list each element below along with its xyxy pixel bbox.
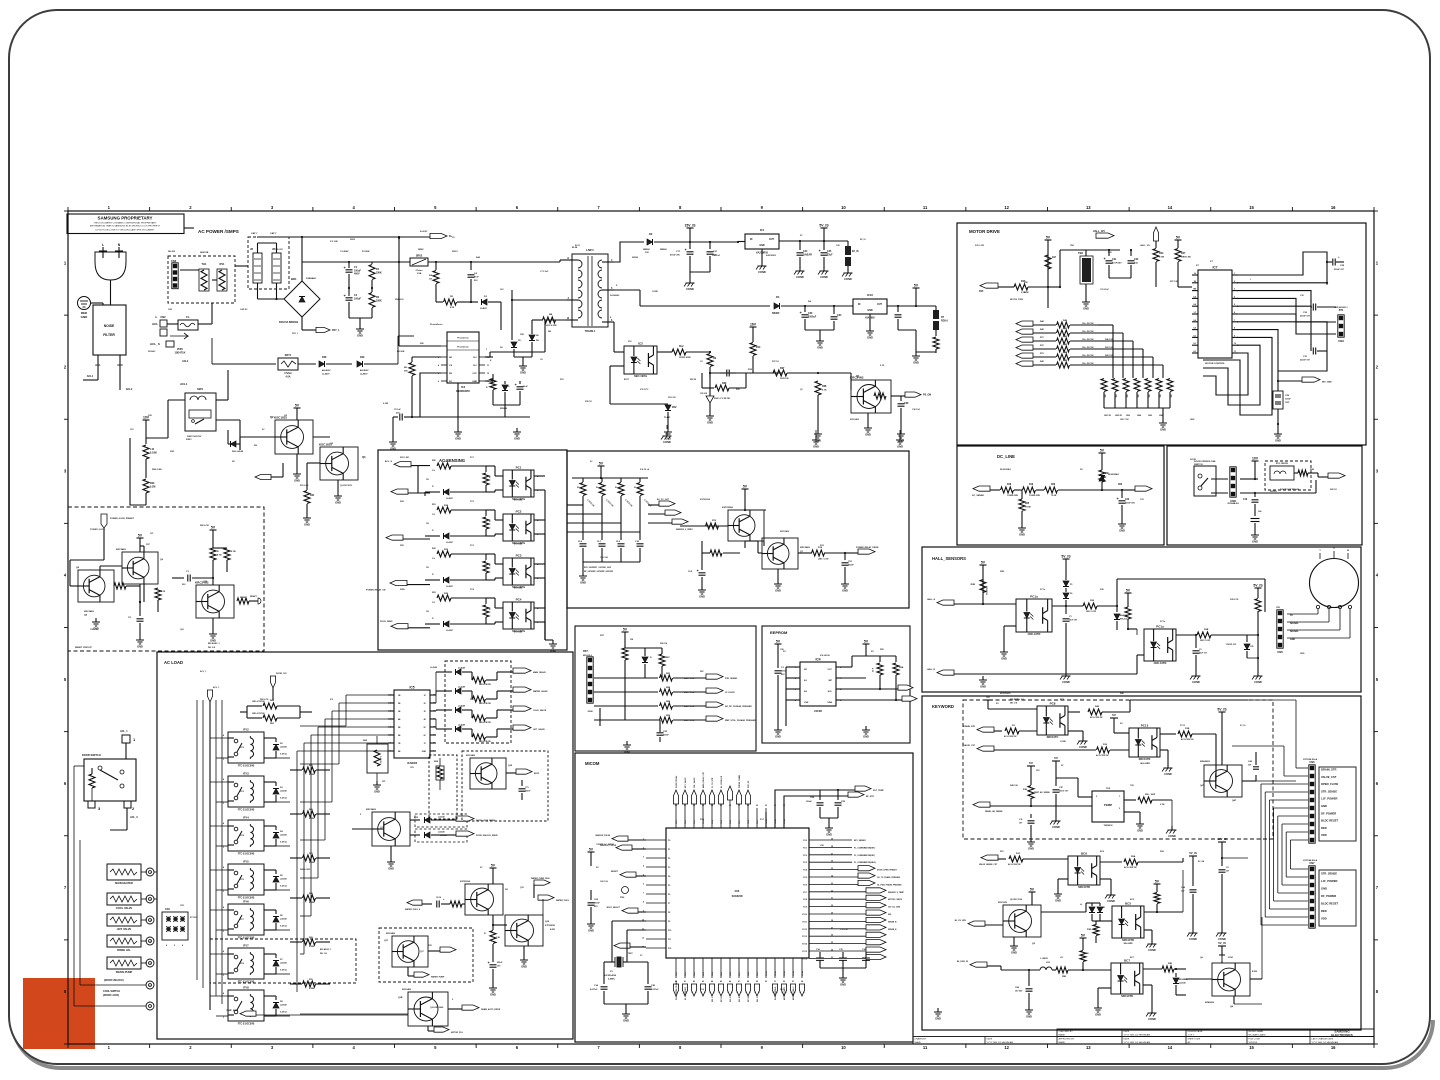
flag DC_OUT bbox=[1122, 489, 1135, 491]
svg-text:GND: GND bbox=[980, 685, 986, 689]
svg-text:10: 10 bbox=[841, 205, 846, 210]
resistor R72 bbox=[485, 554, 487, 560]
svg-text:P3.1: P3.1 bbox=[685, 972, 687, 976]
svg-text:GND: GND bbox=[357, 334, 363, 338]
svg-text:P9: P9 bbox=[668, 921, 670, 923]
svg-text:ACL_3: ACL_3 bbox=[130, 816, 138, 819]
flag MOT_IN5 bbox=[1016, 353, 1033, 358]
svg-text:TEMP_AD_SENSE: TEMP_AD_SENSE bbox=[1034, 791, 1050, 794]
5V_IS net bbox=[1218, 945, 1226, 947]
CN6 top feeds bbox=[1296, 767, 1308, 769]
cap C43 bbox=[1055, 772, 1057, 786]
MCU right pins bbox=[802, 839, 833, 961]
TEMP block TH5 bbox=[1092, 791, 1124, 822]
svg-text:1: 1 bbox=[390, 695, 391, 697]
svg-text:PRESS_COMM: PRESS_COMM bbox=[739, 775, 741, 788]
opto PC8 bbox=[1037, 706, 1068, 735]
svg-text:P2.10: P2.10 bbox=[802, 914, 807, 916]
svg-text:COND: COND bbox=[1168, 834, 1176, 838]
svg-text:SB560: SB560 bbox=[632, 257, 639, 259]
svg-text:HOT_VALVE: HOT_VALVE bbox=[533, 728, 545, 731]
EEPROM section box bbox=[762, 626, 910, 743]
dashed diode row 0 bbox=[415, 814, 467, 827]
svg-text:P3.2: P3.2 bbox=[694, 972, 696, 976]
svg-text:220uF 10T: 220uF 10T bbox=[1300, 359, 1311, 361]
svg-text:R32 1K: R32 1K bbox=[585, 401, 592, 403]
resistor R37 bbox=[746, 372, 770, 374]
svg-text:RY4: RY4 bbox=[243, 816, 249, 820]
inductor L10 bbox=[145, 438, 147, 444]
cap C24 bbox=[799, 241, 801, 250]
5V net bbox=[588, 851, 595, 853]
resistor R18 bbox=[1001, 487, 1014, 493]
svg-text:C5A: C5A bbox=[1015, 986, 1020, 989]
svg-text:C7 2.2nF: C7 2.2nF bbox=[540, 271, 549, 273]
svg-text:DE: 1 B: DE: 1 B bbox=[208, 647, 216, 649]
resistor R6 bbox=[412, 356, 441, 358]
svg-text:15: 15 bbox=[1249, 205, 1254, 210]
svg-text:DC_LINE: DC_LINE bbox=[997, 454, 1015, 459]
svg-text:SRC10TR: SRC10TR bbox=[1121, 994, 1133, 998]
zener D12 bbox=[1175, 969, 1177, 976]
flag POWER_RELAY_ON bbox=[390, 580, 407, 585]
load RINSE VAL bbox=[107, 935, 141, 947]
5V net bbox=[1175, 239, 1182, 241]
wire IC7 pin4 bbox=[1237, 298, 1336, 322]
svg-text:15V_IS: 15V_IS bbox=[1217, 837, 1226, 841]
svg-text:GND: GND bbox=[388, 867, 394, 871]
svg-text:IC4 24C08: IC4 24C08 bbox=[820, 654, 830, 657]
svg-text:GND: GND bbox=[1095, 1013, 1101, 1017]
cap C62 bbox=[627, 961, 648, 963]
svg-text:P0.4: P0.4 bbox=[711, 820, 714, 824]
svg-text:ACL_S: ACL_S bbox=[150, 342, 160, 346]
relay RY3 bbox=[228, 776, 264, 807]
flag AC_ZC_OUT bbox=[648, 504, 659, 506]
svg-text:GND: GND bbox=[472, 381, 477, 383]
cap C50 bbox=[701, 563, 703, 570]
svg-text:LED 4.7K/1W: LED 4.7K/1W bbox=[479, 702, 491, 705]
svg-text:BF_STR: BF_STR bbox=[866, 796, 874, 798]
svg-text:50: 50 bbox=[765, 981, 767, 983]
svg-text:SEL B: SEL B bbox=[739, 996, 741, 1002]
motor M1 bbox=[1310, 559, 1359, 608]
svg-text:TB2: TB2 bbox=[1078, 251, 1083, 255]
svg-text:BIO ASSY: 1: BIO ASSY: 1 bbox=[320, 948, 331, 951]
flag FRY_1 bbox=[302, 329, 316, 331]
5V net bbox=[294, 407, 301, 409]
svg-text:DOOR_UNLOCK_DRIVE: DOOR_UNLOCK_DRIVE bbox=[476, 835, 498, 837]
svg-text:0.47mA: 0.47mA bbox=[280, 1010, 287, 1013]
svg-text:R27: R27 bbox=[1181, 252, 1186, 255]
svg-text:5V: 5V bbox=[981, 561, 986, 565]
svg-text:PinsinDesin: PinsinDesin bbox=[457, 347, 469, 349]
svg-text:GND: GND bbox=[623, 1019, 629, 1023]
svg-text:MAIN_RELAY_CST: MAIN_RELAY_CST bbox=[702, 771, 705, 788]
resistor R95 bbox=[879, 656, 881, 662]
transistor Q10 bbox=[762, 538, 798, 569]
resistor R73 bbox=[485, 598, 487, 604]
svg-text:R9 1K: R9 1K bbox=[690, 379, 697, 381]
svg-text:C25: C25 bbox=[1250, 646, 1253, 648]
svg-text:LL4148: LL4148 bbox=[430, 666, 438, 669]
svg-text:6: 6 bbox=[1234, 312, 1235, 314]
gnd bbox=[1254, 531, 1256, 535]
cap C61 bbox=[604, 961, 612, 963]
svg-text:5: 5 bbox=[390, 727, 391, 729]
svg-text:LL4148: LL4148 bbox=[438, 816, 445, 819]
dashed box: line filter parts bbox=[168, 256, 235, 303]
regulator TB2 bbox=[1082, 258, 1091, 282]
AC SENSING section box bbox=[378, 450, 567, 650]
motor contacts bbox=[1287, 605, 1352, 638]
svg-text:LL4007: LL4007 bbox=[360, 372, 368, 375]
transistor Q9 bbox=[728, 510, 764, 541]
svg-text:JST10B-XH-A: JST10B-XH-A bbox=[1303, 859, 1318, 862]
PWM IC3 ICE3B0365 bbox=[447, 332, 479, 383]
svg-text:P3.0: P3.0 bbox=[676, 972, 678, 976]
opto BC5 bbox=[1112, 906, 1144, 938]
svg-text:SIGNAL: SIGNAL bbox=[1290, 630, 1299, 633]
thermistor TH1 bbox=[201, 270, 207, 290]
svg-text:SEL 1: SEL 1 bbox=[712, 997, 714, 1002]
diode D23 bbox=[425, 623, 440, 625]
flag MODE bbox=[622, 908, 638, 913]
svg-text:GND: GND bbox=[1290, 639, 1295, 641]
opto IC11 bbox=[1016, 599, 1052, 632]
svg-text:PC2: PC2 bbox=[516, 510, 522, 514]
svg-text:DOOR S/W RELAY: DOOR S/W RELAY bbox=[1280, 488, 1300, 491]
wire IC7 pin11 bbox=[1203, 353, 1248, 395]
svg-text:8: 8 bbox=[1234, 328, 1235, 330]
svg-text:PUMP_SENS: PUMP_SENS bbox=[226, 1010, 238, 1012]
svg-text:4.0A: 4.0A bbox=[285, 375, 290, 378]
svg-text:Q18 KRC246S: Q18 KRC246S bbox=[430, 1006, 444, 1009]
cap C29 bbox=[1273, 391, 1283, 409]
svg-text:P2.3: P2.3 bbox=[803, 862, 807, 864]
svg-text:R38: R38 bbox=[822, 385, 827, 388]
diode D42 LL4148 bbox=[436, 709, 452, 711]
crystal X1 bbox=[612, 920, 646, 922]
svg-text:KST2222A: KST2222A bbox=[700, 498, 710, 501]
svg-text:COOL VALVE: COOL VALVE bbox=[116, 906, 133, 910]
svg-text:PC1a: PC1a bbox=[1160, 621, 1166, 623]
svg-text:L1B: L1B bbox=[1046, 962, 1050, 964]
cap C9 bbox=[1221, 862, 1223, 866]
resistor R63 bbox=[473, 696, 486, 702]
svg-text:11: 11 bbox=[487, 365, 489, 367]
5V net bbox=[137, 537, 144, 539]
svg-text:ACL1: ACL1 bbox=[180, 382, 188, 386]
svg-text:LED 4.7K/1W: LED 4.7K/1W bbox=[252, 712, 264, 715]
cond symbols bbox=[666, 432, 668, 436]
svg-text:10V 50V: 10V 50V bbox=[1015, 990, 1023, 992]
svg-text:COND: COND bbox=[758, 270, 766, 274]
svg-text:100nF: 100nF bbox=[848, 564, 855, 566]
svg-text:CN5: CN5 bbox=[1277, 650, 1283, 654]
svg-text:11: 11 bbox=[923, 205, 928, 210]
svg-text:IC2: IC2 bbox=[638, 342, 643, 346]
svg-text:5V: 5V bbox=[1030, 888, 1035, 892]
svg-text:VDD: VDD bbox=[1321, 917, 1327, 921]
svg-text:VALVE_CST: VALVE_CST bbox=[964, 744, 976, 747]
5V net bbox=[598, 465, 605, 467]
svg-text:2: 2 bbox=[1234, 281, 1235, 283]
wire IC7 pin2 bbox=[1237, 282, 1327, 284]
svg-text:RINSE VAL: RINSE VAL bbox=[117, 948, 131, 952]
svg-text:22uF: 22uF bbox=[827, 253, 833, 256]
svg-text:P2.1: P2.1 bbox=[803, 847, 807, 849]
diode pair D11 bbox=[1041, 911, 1086, 913]
svg-text:GND: GND bbox=[1026, 1015, 1032, 1019]
svg-text:Q1: Q1 bbox=[856, 374, 860, 378]
svg-text:P2.9: P2.9 bbox=[803, 907, 807, 909]
flag WD_IN bbox=[977, 727, 994, 732]
flag PUMP_SENS bbox=[240, 1011, 256, 1016]
svg-text:ACL_1: ACL_1 bbox=[120, 730, 128, 733]
diode D4 bbox=[614, 289, 640, 291]
diode D43 LL4148 bbox=[436, 728, 452, 730]
svg-text:SWITCH: SWITCH bbox=[1194, 464, 1203, 466]
relay SW1 bbox=[185, 393, 216, 431]
svg-text:RY5: RY5 bbox=[243, 860, 249, 864]
MCU bottom pins bbox=[675, 958, 804, 983]
svg-text:5V: 5V bbox=[864, 640, 869, 644]
svg-text:LTV816S: LTV816S bbox=[514, 500, 523, 502]
svg-text:D4 SB360: D4 SB360 bbox=[610, 294, 620, 297]
svg-text:R3B: R3B bbox=[1204, 629, 1209, 631]
svg-text:SENSOR_PULSE: SENSOR_PULSE bbox=[595, 835, 610, 837]
wire IC7 pin1 loop bbox=[1237, 252, 1327, 285]
svg-text:CBL_VALVE: CBL_VALVE bbox=[693, 777, 696, 788]
svg-text:12: 12 bbox=[487, 373, 489, 375]
svg-text:330K: 330K bbox=[376, 299, 382, 302]
svg-text:VDD: VDD bbox=[1321, 833, 1327, 837]
svg-text:5V: 5V bbox=[491, 864, 496, 868]
svg-text:GND: GND bbox=[588, 929, 594, 933]
svg-text:RP_04T03RF_04T03RF_04T03F3: RP_04T03RF_04T03RF_04T03F3 bbox=[584, 570, 613, 573]
svg-text:GND: GND bbox=[304, 523, 310, 527]
svg-text:P6: P6 bbox=[668, 894, 670, 896]
svg-text:POWER_RELAY_ON: POWER_RELAY_ON bbox=[366, 589, 386, 592]
resistor R87 bbox=[594, 677, 658, 679]
svg-text:AC_ZC_OUT: AC_ZC_OUT bbox=[657, 498, 670, 501]
svg-text:P2.6: P2.6 bbox=[803, 884, 807, 886]
svg-text:250V: 250V bbox=[177, 347, 183, 351]
svg-text:LL4187: LL4187 bbox=[446, 629, 454, 632]
svg-text:R5A 4.1K: R5A 4.1K bbox=[395, 298, 404, 301]
svg-text:4.7K/0.1W: 4.7K/0.1W bbox=[985, 586, 988, 595]
svg-text:GRN: GRN bbox=[588, 711, 593, 713]
svg-text:43: 43 bbox=[702, 980, 704, 983]
svg-text:Q5 KRC102S: Q5 KRC102S bbox=[1010, 899, 1023, 901]
svg-text:GND: GND bbox=[817, 346, 823, 350]
svg-text:PL_COMPARATOR(SEL2): PL_COMPARATOR(SEL2) bbox=[854, 861, 876, 864]
svg-text:LL4187: LL4187 bbox=[446, 497, 454, 500]
connector CN1 bbox=[162, 912, 188, 940]
svg-text:5V: 5V bbox=[1290, 615, 1293, 617]
svg-text:LL4148: LL4148 bbox=[440, 834, 448, 837]
svg-text:P2.0: P2.0 bbox=[803, 840, 807, 842]
svg-text:7: 7 bbox=[643, 893, 644, 895]
MCU right flags bbox=[829, 840, 905, 960]
resistor R51 bbox=[1009, 856, 1023, 862]
5V net2 bbox=[863, 643, 870, 645]
svg-text:SENSE_B: SENSE_B bbox=[888, 921, 897, 923]
diode pair ZD5 bbox=[1063, 581, 1069, 587]
cap C22u bbox=[519, 381, 521, 384]
svg-text:RED.MOLEX-1: RED.MOLEX-1 bbox=[1334, 307, 1349, 309]
cap C71 bbox=[521, 780, 523, 786]
svg-text:R90 1M: R90 1M bbox=[660, 643, 667, 645]
svg-text:GND: GND bbox=[1028, 847, 1034, 851]
flags SDA/SCL bbox=[896, 699, 902, 701]
diode D8 bbox=[228, 443, 240, 445]
resistor R44 bbox=[1057, 354, 1070, 360]
resistor R60 bbox=[437, 463, 451, 469]
resistor R30 bbox=[702, 387, 714, 389]
flag TEST bbox=[614, 943, 630, 948]
svg-text:(DOOR LOCK): (DOOR LOCK) bbox=[103, 994, 119, 997]
svg-text:CL6 104: CL6 104 bbox=[600, 556, 609, 559]
cap C1 (bulk) bbox=[348, 262, 350, 268]
relay RY6 bbox=[228, 904, 264, 935]
svg-text:SB560: SB560 bbox=[643, 249, 650, 251]
diode D41 LL4148 bbox=[436, 690, 452, 692]
wire IC7 pin8 (flag) bbox=[1237, 330, 1278, 381]
svg-text:5V: 5V bbox=[1155, 880, 1160, 884]
svg-text:DC_SENSE: DC_SENSE bbox=[972, 495, 984, 497]
cap C44 bbox=[1030, 806, 1032, 814]
svg-text:P3.5: P3.5 bbox=[721, 972, 723, 976]
svg-text:2.4MHz: 2.4MHz bbox=[608, 977, 615, 980]
regulator IC10 bbox=[834, 305, 853, 307]
svg-text:GND: GND bbox=[580, 581, 586, 585]
diode D55 bbox=[264, 953, 276, 955]
flag MOT_IN3 bbox=[1016, 337, 1033, 342]
resistor R76 bbox=[450, 901, 462, 907]
svg-text:P3.12: P3.12 bbox=[784, 971, 786, 976]
svg-text:C5 1uF: C5 1uF bbox=[394, 409, 401, 411]
svg-text:HALL_12V: HALL_12V bbox=[1140, 244, 1151, 247]
svg-text:ISL-B2: ISL-B2 bbox=[168, 251, 176, 253]
svg-text:Q1B: Q1B bbox=[398, 997, 403, 999]
svg-text:C36: C36 bbox=[904, 402, 909, 405]
flag B+ bbox=[430, 233, 447, 238]
resistor R5 bbox=[436, 301, 443, 303]
svg-text:SR02: SR02 bbox=[416, 255, 423, 258]
svg-text:R2B: R2B bbox=[971, 584, 976, 586]
svg-text:SB560: SB560 bbox=[660, 249, 667, 251]
zigzag R91 bbox=[659, 654, 665, 666]
svg-text:IC10: IC10 bbox=[867, 293, 873, 297]
svg-text:MOTOR-CONTROL: MOTOR-CONTROL bbox=[1205, 363, 1225, 365]
svg-text:10V: 10V bbox=[1252, 457, 1259, 461]
MICOM section box bbox=[575, 753, 913, 1042]
wire FB loop left bbox=[420, 373, 441, 400]
svg-text:KTC3881S: KTC3881S bbox=[545, 925, 556, 927]
svg-text:B+415V: B+415V bbox=[420, 230, 428, 233]
svg-text:15: 15 bbox=[433, 703, 435, 705]
svg-text:0.1W: 0.1W bbox=[1160, 804, 1165, 806]
wire Q8-Q9 bbox=[99, 566, 101, 570]
svg-text:HALL_12V: HALL_12V bbox=[1093, 230, 1105, 233]
flag MOT_IN2 bbox=[1016, 329, 1033, 334]
varistor LOOP1 bbox=[170, 333, 188, 339]
motor controller IC7 bbox=[1198, 270, 1232, 358]
svg-text:DOOR_OPEN_PRESET: DOOR_OPEN_PRESET bbox=[877, 870, 898, 872]
svg-text:FTC-S1-DC5VB: FTC-S1-DC5VB bbox=[238, 854, 255, 856]
svg-text:R6 20K: R6 20K bbox=[397, 351, 405, 353]
flag VDC bbox=[1153, 227, 1158, 241]
resistor R77 bbox=[490, 931, 496, 944]
svg-text:Q3: Q3 bbox=[362, 455, 366, 459]
svg-text:C1A: C1A bbox=[594, 984, 599, 987]
svg-text:R1C: R1C bbox=[1016, 853, 1021, 855]
svg-text:C1 450V: C1 450V bbox=[340, 250, 349, 253]
svg-text:30K: 30K bbox=[404, 370, 408, 372]
DC LINE section box bbox=[957, 446, 1164, 545]
motor labels bbox=[1024, 252, 1200, 417]
svg-text:L1F_POWER: L1F_POWER bbox=[1321, 797, 1337, 801]
svg-text:5: 5 bbox=[1234, 304, 1235, 306]
svg-text:GND: GND bbox=[1083, 307, 1089, 311]
svg-text:EF_IS: EF_IS bbox=[860, 239, 866, 241]
svg-text:PC8: PC8 bbox=[1050, 702, 1056, 706]
flag WATER_VALVE bbox=[513, 687, 531, 692]
svg-text:PinsinDesin: PinsinDesin bbox=[430, 324, 443, 326]
svg-text:100nF: 100nF bbox=[806, 801, 813, 803]
svg-text:LL4148: LL4148 bbox=[458, 685, 466, 688]
svg-text:KRC246S: KRC246S bbox=[84, 610, 94, 613]
svg-text:9.027uF: 9.027uF bbox=[590, 989, 598, 991]
svg-text:R48 10K: R48 10K bbox=[1010, 784, 1018, 787]
flag DOOR_LOCK_DRIVE bbox=[456, 816, 474, 821]
svg-text:SPK_OP: SPK_OP bbox=[748, 780, 750, 788]
svg-text:PC13: PC13 bbox=[1141, 724, 1149, 728]
svg-text:P2.4: P2.4 bbox=[803, 869, 807, 872]
svg-text:400V: 400V bbox=[354, 273, 360, 276]
svg-text:1.5A: 1.5A bbox=[417, 272, 422, 275]
svg-text:GND: GND bbox=[1001, 657, 1007, 661]
svg-text:L: L bbox=[102, 243, 104, 247]
svg-text:5V: 5V bbox=[211, 526, 216, 530]
row A: opto BC6 bbox=[981, 855, 998, 860]
connector CN5 bbox=[1277, 610, 1283, 648]
svg-text:13: 13 bbox=[1086, 205, 1091, 210]
5V_IS net bbox=[800, 240, 824, 242]
svg-text:CN2: CN2 bbox=[160, 315, 166, 319]
svg-text:4A 400V: 4A 400V bbox=[360, 369, 369, 372]
flag RMP_STOL_PLEASE_PRESSED bbox=[706, 716, 723, 721]
svg-text:RY6: RY6 bbox=[243, 900, 249, 904]
svg-text:COND: COND bbox=[686, 287, 694, 291]
resistor R74 bbox=[812, 550, 825, 556]
svg-text:RY3: RY3 bbox=[243, 772, 249, 776]
svg-text:R60 4.7K: R60 4.7K bbox=[260, 698, 269, 701]
svg-text:KEY_VALVE: KEY_VALVE bbox=[684, 777, 687, 788]
svg-text:YYYY. MM. DD HH:MM AM: YYYY. MM. DD HH:MM AM bbox=[1312, 1041, 1339, 1044]
svg-text:18V: 18V bbox=[520, 334, 524, 336]
svg-text:SR02: SR02 bbox=[350, 239, 356, 241]
svg-text:GND: GND bbox=[842, 589, 848, 593]
svg-text:6.10M: 6.10M bbox=[309, 818, 315, 820]
5V_IS net2 bbox=[1255, 587, 1262, 589]
resistor R41 bbox=[1057, 330, 1070, 336]
resistor R39 bbox=[1255, 599, 1261, 612]
svg-text:DS2Y-S-DC5V: DS2Y-S-DC5V bbox=[187, 436, 202, 438]
svg-text:GND: GND bbox=[863, 735, 869, 739]
